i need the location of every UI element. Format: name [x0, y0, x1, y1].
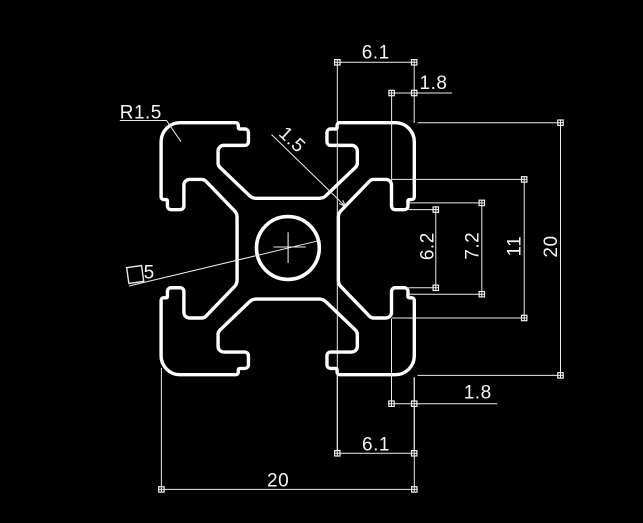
svg-text:1.8: 1.8	[464, 383, 492, 404]
extension line bottom of 20 right	[418, 374, 564, 376]
extension line right of 6.1 bottom	[413, 404, 415, 454]
extension line left of 20 bottom	[160, 368, 162, 489]
extension line of 1.8 top	[391, 93, 393, 181]
grip 8	[522, 315, 527, 320]
grip 10	[479, 292, 484, 297]
leader square-5 (center bore)	[129, 240, 321, 286]
svg-text:20: 20	[267, 471, 289, 492]
dim line 11	[523, 179, 525, 318]
dim line 1.8 bottom	[392, 403, 498, 405]
svg-text:6.1: 6.1	[362, 43, 390, 64]
grip 2	[412, 60, 417, 65]
leader R1.5	[120, 121, 181, 142]
center mark crosshair	[274, 232, 306, 263]
extension line top of 6.2	[408, 209, 438, 211]
extension line of 1.8 bottom	[391, 319, 393, 404]
extension line bottom of 7.2	[407, 293, 484, 295]
extension line left of 6.1 bottom	[336, 374, 338, 453]
dim line 6.2	[435, 210, 437, 288]
grip 5	[558, 120, 563, 125]
dim line 7.2	[481, 203, 483, 294]
extension line top of 11	[392, 178, 527, 180]
svg-text:6.2: 6.2	[417, 232, 438, 260]
grip 6	[558, 373, 563, 378]
grip 15	[335, 451, 340, 456]
grip 18	[412, 487, 417, 492]
extension line right of 20 bottom	[413, 378, 415, 490]
grip 3	[389, 90, 394, 95]
leader 1.5 (web thickness) with arrowhead	[272, 135, 346, 207]
grip 4	[412, 90, 417, 95]
dim line 20 right	[560, 123, 562, 376]
svg-text:20: 20	[541, 235, 562, 257]
grip 11	[433, 207, 438, 212]
grip 9	[479, 200, 484, 205]
grip 7	[522, 177, 527, 182]
dim line 1.8 top	[392, 92, 452, 94]
grip 1	[335, 60, 340, 65]
square symbol of 5 label	[127, 266, 144, 284]
extension line right of 1.8 bottom	[413, 377, 415, 404]
extension line left of 6.1 top (runs to bottom 6.1)	[336, 62, 338, 453]
extension line top of 20 right	[418, 122, 564, 124]
svg-text:11: 11	[505, 236, 526, 257]
svg-text:1.8: 1.8	[420, 73, 448, 94]
svg-text:7.2: 7.2	[462, 232, 483, 260]
grip 12	[433, 285, 438, 290]
dim line 20 bottom	[161, 488, 414, 490]
extension line bottom of 6.2	[408, 287, 438, 289]
extension line top of 7.2	[407, 202, 484, 204]
extension line right of 6.1 top	[413, 62, 415, 123]
grip 16	[412, 451, 417, 456]
svg-text:6.1: 6.1	[362, 435, 390, 456]
extension line bottom of 11	[392, 317, 527, 319]
dim line 6.1 top	[337, 61, 414, 63]
svg-text:5: 5	[144, 263, 155, 284]
grip 14	[412, 401, 417, 406]
dim line 6.1 bottom	[337, 452, 414, 454]
center bore circle	[257, 217, 320, 280]
grip 17	[159, 487, 164, 492]
extrusion profile outline	[161, 123, 414, 375]
svg-text:R1.5: R1.5	[120, 103, 162, 124]
grip 13	[389, 401, 394, 406]
